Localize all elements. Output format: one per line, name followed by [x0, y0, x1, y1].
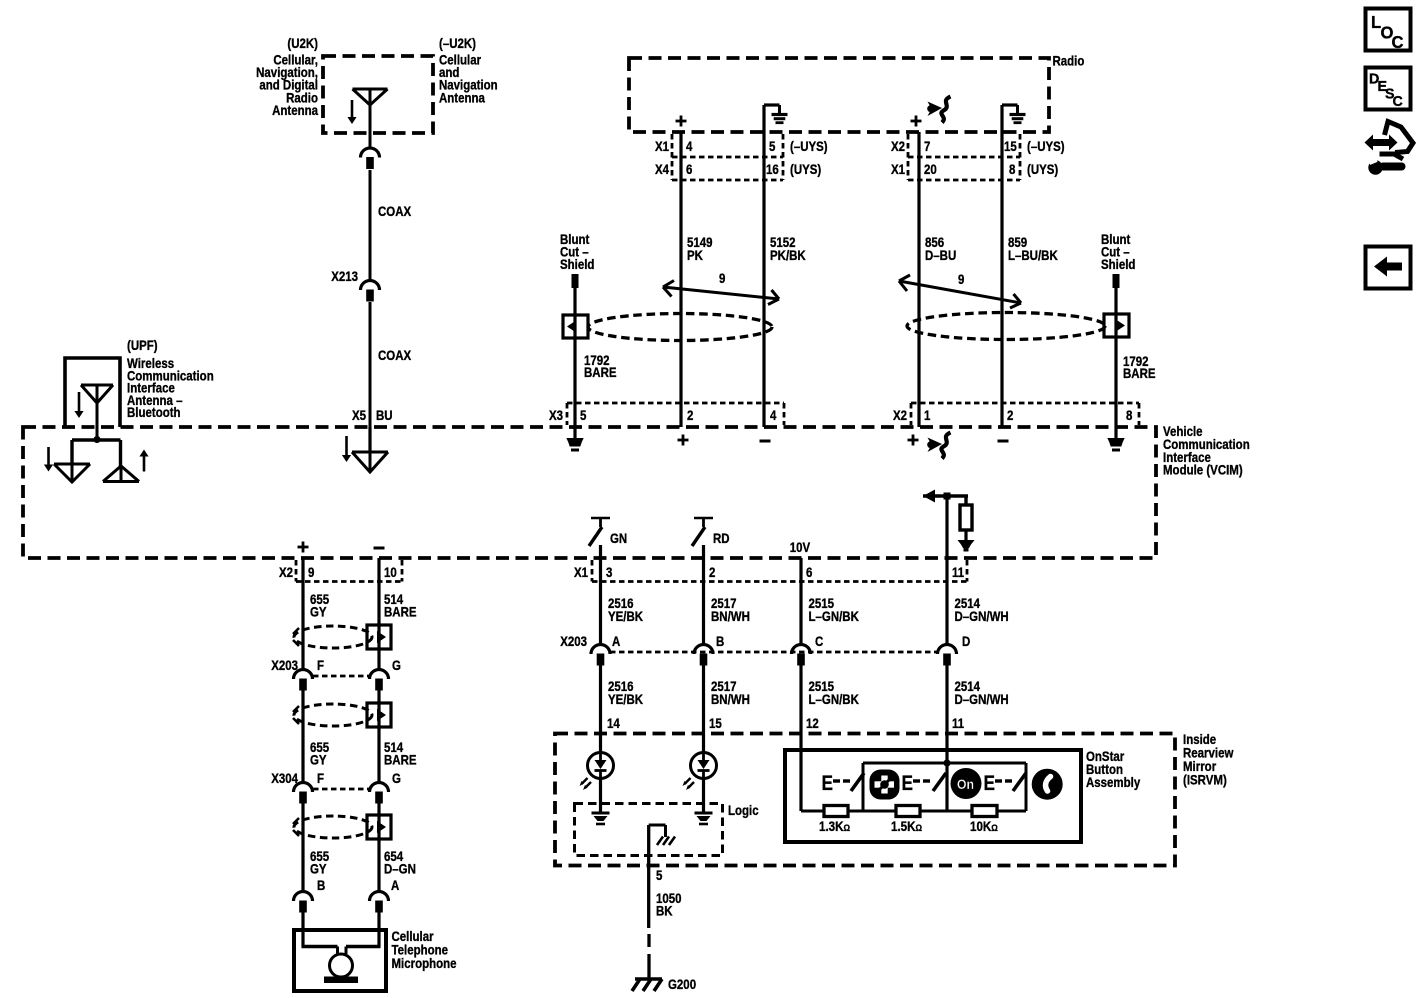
label 655 GY (section 3): [310, 848, 329, 877]
VCIM bottom pin row X1 (3,2,6,11): [574, 560, 967, 582]
svg-text:E: E: [984, 773, 996, 796]
VCIM internal signal arrow and pull-up resistor: [923, 490, 975, 559]
svg-text:Shield: Shield: [560, 256, 594, 272]
label 2517 BN/WH (lower): [711, 678, 750, 707]
svg-text:On: On: [957, 777, 974, 793]
VCIM internal shield ground (right): [1107, 427, 1124, 452]
svg-text:4: 4: [770, 407, 777, 423]
wire 655 GY (VCIM 9 to X203 F): [301, 558, 304, 670]
wire 859 L-BU/BK (radio 15 to VCIM X2-2): [1000, 105, 1003, 427]
svg-text:L–GN/BK: L–GN/BK: [809, 691, 860, 707]
svg-text:B: B: [716, 633, 724, 649]
button common bus bracket: [863, 763, 1026, 811]
bluetooth antenna bracket: [65, 358, 120, 427]
wire 856 D-BU (radio X2-7 to VCIM X2-1): [917, 132, 920, 427]
resistor 1.3K: [824, 806, 848, 817]
label 5152 PK/BK: [770, 234, 806, 263]
label 859 L-BU/BK: [1008, 234, 1058, 263]
signal arrow down (antenna): [347, 100, 356, 124]
svg-text:X304: X304: [271, 770, 299, 786]
svg-text:Shield: Shield: [1101, 256, 1135, 272]
svg-text:G: G: [392, 657, 401, 673]
svg-text:Logic: Logic: [728, 802, 759, 818]
VCIM internal cellular antenna symbol: [352, 427, 388, 472]
label Inside Rearview Mirror (ISRVM): [1183, 731, 1233, 788]
svg-text:4: 4: [686, 138, 693, 154]
wire 2514 D-GN/WH (X203 D to ISRVM 11): [945, 665, 948, 734]
svg-text:GY: GY: [310, 860, 327, 876]
svg-text:2: 2: [687, 407, 693, 423]
svg-text:PK: PK: [687, 247, 704, 263]
svg-text:BARE: BARE: [1123, 365, 1156, 381]
arrow down (bluetooth tx): [44, 447, 53, 472]
svg-text:11: 11: [952, 564, 964, 580]
svg-text:G200: G200: [668, 976, 696, 992]
svg-text:12: 12: [806, 715, 819, 731]
shield ellipse (right pair): [907, 313, 1105, 340]
wire 514 BARE (X203 to X304): [377, 690, 380, 784]
svg-text:9: 9: [719, 270, 725, 286]
label Logic: [728, 802, 759, 818]
svg-text:BN/WH: BN/WH: [711, 608, 750, 624]
label Cellular Telephone Microphone: [392, 928, 457, 971]
polarity marks microphone feed: [298, 542, 385, 553]
svg-text:GY: GY: [310, 751, 327, 767]
svg-text:(–U2K): (–U2K): [439, 35, 476, 51]
wire 2517 BN/WH (VCIM 2 to X203 B): [702, 558, 705, 645]
Inside Rearview Mirror (ISRVM) dashed box: [555, 734, 1175, 866]
svg-text:BK: BK: [656, 902, 673, 918]
svg-text:YE/BK: YE/BK: [608, 691, 644, 707]
blunt cut shield label (left): [560, 231, 594, 272]
shield section 2 (microphone pair): [293, 703, 391, 727]
resistor 1.5K: [896, 806, 920, 817]
svg-text:8: 8: [1126, 407, 1132, 423]
svg-text:GN: GN: [610, 530, 627, 546]
label 856 D-BU: [925, 234, 956, 263]
svg-text:14: 14: [607, 715, 621, 731]
svg-text:C: C: [1392, 33, 1404, 52]
pin X5 BU at VCIM: [352, 407, 393, 423]
svg-text:X1: X1: [891, 161, 905, 177]
label 2517 BN/WH (upper): [711, 595, 750, 624]
label 2514 D-GN/WH (lower): [955, 678, 1009, 707]
svg-text:F: F: [317, 657, 324, 673]
svg-text:5: 5: [656, 867, 662, 883]
svg-text:X5: X5: [352, 407, 366, 423]
microphone element symbol: [302, 930, 381, 983]
svg-text:D: D: [962, 633, 970, 649]
audio noise symbol (VCIM input): [927, 433, 950, 459]
svg-text:1: 1: [924, 407, 930, 423]
svg-text:COAX: COAX: [378, 203, 412, 219]
svg-text:A: A: [612, 633, 620, 649]
back arrow button icon: [1366, 247, 1411, 289]
wire 5152 PK/BK (radio 5 to VCIM 4): [762, 105, 765, 427]
Radio dashed box: [629, 58, 1049, 132]
svg-text:3: 3: [606, 564, 612, 580]
DESC button icon: [1366, 68, 1411, 111]
svg-text:16: 16: [766, 161, 779, 177]
svg-text:10: 10: [384, 564, 397, 580]
twisted pair marker 9 (right pair): [899, 271, 1021, 308]
wire from pin 12 into button assembly: [799, 734, 802, 812]
svg-text:C: C: [815, 633, 823, 649]
ISRVM pin numbers 14 15 12 11: [607, 715, 964, 731]
svg-text:X2: X2: [893, 407, 907, 423]
label 10K ohm: [970, 819, 998, 834]
connector microphone pins B A: [294, 877, 400, 913]
label 655 GY (section 1): [310, 591, 329, 620]
audio noise symbol (radio): [927, 97, 950, 123]
twisted pair marker 9 (left pair): [663, 270, 779, 305]
label 1792 BARE (right): [1123, 353, 1156, 381]
wire 655 GY (X203 to X304): [301, 690, 304, 784]
label 655 GY (section 2): [310, 739, 329, 768]
label 2516 YE/BK (lower): [608, 678, 644, 707]
svg-text:Antenna: Antenna: [272, 102, 319, 118]
svg-text:X213: X213: [331, 268, 358, 284]
svg-text:BN/WH: BN/WH: [711, 691, 750, 707]
label 1792 BARE (left): [584, 352, 617, 380]
Cellular Telephone Microphone box: [294, 930, 386, 991]
antenna symbol T1: [353, 89, 388, 133]
svg-text:11: 11: [952, 715, 964, 731]
shield section 1 (microphone pair): [293, 625, 391, 649]
plus polarity (radio left): [676, 116, 687, 127]
svg-text:(UYS): (UYS): [790, 161, 821, 177]
blunt cut stub (right): [1113, 274, 1120, 288]
VCIM internal switch to RD indicator: [692, 518, 730, 558]
shield drain wire 1792 BARE (left): [573, 288, 576, 427]
Vehicle Communication Interface Module (VCIM) dashed box: [23, 427, 1156, 558]
label OnStar Button Assembly: [1086, 748, 1141, 790]
svg-text:Antenna: Antenna: [439, 89, 486, 105]
switch button 3 (phone): [984, 773, 1027, 796]
label 1.3K ohm: [819, 819, 850, 834]
VCIM top pin row X3 (5,2,4): [549, 403, 784, 425]
label Vehicle Communication Interface Module (VCIM): [1163, 423, 1250, 478]
svg-text:Radio: Radio: [1053, 52, 1085, 68]
svg-text:L–GN/BK: L–GN/BK: [809, 608, 860, 624]
OnStar Button Assembly box: [785, 750, 1081, 842]
inline connector (antenna lead): [361, 148, 380, 169]
microphone lead wires: [303, 912, 379, 930]
svg-text:COAX: COAX: [378, 347, 412, 363]
coax lead-in wire: [369, 133, 372, 148]
svg-text:BARE: BARE: [584, 364, 617, 380]
svg-text:GY: GY: [310, 603, 327, 619]
switch button 1 (hands-free): [822, 773, 865, 796]
svg-text:BARE: BARE: [384, 603, 417, 619]
svg-text:D–GN: D–GN: [384, 860, 416, 876]
svg-text:5: 5: [769, 138, 775, 154]
pin 5 ISRVM: [656, 867, 662, 883]
svg-text:BARE: BARE: [384, 751, 417, 767]
svg-text:Bluetooth: Bluetooth: [127, 404, 181, 420]
wire 2517 BN/WH (X203 B to ISRVM 15): [702, 665, 705, 734]
label COAX (upper): [378, 203, 412, 219]
label 5149 PK: [687, 234, 713, 263]
bluetooth antenna arrow down: [74, 392, 83, 418]
svg-text:9: 9: [308, 564, 314, 580]
wire from pin 11 into button assembly: [945, 734, 948, 812]
junction node on signal wire: [943, 759, 950, 766]
arrow up (bluetooth rx): [139, 450, 148, 472]
VCIM top pin row X2 (1,2,8): [893, 403, 1139, 425]
shield ellipse (left pair): [588, 314, 772, 341]
svg-text:1.5KΩ: 1.5KΩ: [891, 819, 922, 834]
svg-text:X4: X4: [655, 161, 670, 177]
wire 654 D-GN (X304 to microphone A): [377, 803, 380, 892]
svg-text:PK/BK: PK/BK: [770, 247, 806, 263]
svg-text:6: 6: [686, 161, 692, 177]
VCIM internal antenna down (bluetooth tx): [54, 440, 90, 482]
svg-text:C: C: [1393, 94, 1404, 110]
wire 1050 BK dashed continuation: [647, 934, 650, 967]
blunt cut shield label (right): [1101, 231, 1135, 272]
resistor 10K: [972, 806, 997, 817]
coax wire segment COAX: [369, 170, 372, 281]
svg-text:10KΩ: 10KΩ: [970, 819, 998, 834]
label 1.5K ohm: [891, 819, 922, 834]
svg-text:YE/BK: YE/BK: [608, 608, 644, 624]
connector X213: [331, 268, 379, 302]
label (UPF) Wireless Communication Interface Antenna - Bluetooth: [127, 337, 214, 421]
svg-text:(UPF): (UPF): [127, 337, 158, 353]
svg-text:D–GN/WH: D–GN/WH: [955, 608, 1009, 624]
blunt cut stub (left): [572, 274, 579, 288]
label 2515 L-GN/BK (upper): [809, 595, 860, 624]
svg-text:15: 15: [1004, 138, 1017, 154]
svg-text:2: 2: [709, 564, 715, 580]
svg-text:(–UYS): (–UYS): [790, 138, 828, 154]
label COAX (lower): [378, 347, 412, 363]
VCIM bottom pin row X2 (9,10) microphone: [279, 560, 402, 582]
label 2516 YE/BK (upper): [608, 595, 644, 624]
svg-text:D–GN/WH: D–GN/WH: [955, 691, 1009, 707]
ground G200: [632, 967, 696, 992]
label (U2K) Cellular Navigation and Digital Radio Antenna: [256, 35, 319, 118]
radio connector pin box right (X2-7/15, X1-20/8): [891, 134, 1065, 180]
svg-text:1.3KΩ: 1.3KΩ: [819, 819, 850, 834]
svg-text:X203: X203: [560, 633, 587, 649]
VCIM internal antenna up (bluetooth rx): [103, 440, 139, 482]
resistor ladder bus: [801, 810, 1026, 813]
svg-text:RD: RD: [713, 530, 730, 546]
wire 5149 PK (radio X1-4 to VCIM 2): [679, 132, 682, 427]
wire 2515 L-GN/BK (X203 C to ISRVM 12): [799, 665, 802, 734]
VCIM internal antenna arrow: [342, 436, 351, 462]
svg-text:X3: X3: [549, 407, 563, 423]
svg-text:(UYS): (UYS): [1027, 161, 1058, 177]
shield termination box (left): [563, 315, 588, 338]
switch button 2 (OnStar): [902, 773, 947, 796]
wire 2516 YE/BK (X203 A to ISRVM 14): [599, 665, 602, 734]
svg-text:Microphone: Microphone: [392, 955, 457, 971]
svg-text:X2: X2: [891, 138, 905, 154]
shield section 3 (microphone pair): [293, 815, 391, 839]
connector row X203 (A,B,C,D): [560, 633, 970, 666]
svg-text:B: B: [317, 877, 325, 893]
bluetooth antenna symbol: [81, 385, 113, 440]
label 654 D-GN (section 3): [384, 848, 416, 877]
svg-text:A: A: [391, 877, 399, 893]
wire 655 GY (X304 to microphone B): [301, 803, 304, 892]
LOC button icon: [1366, 9, 1411, 53]
connector X203 F G (microphone): [271, 657, 401, 691]
label 1050 BK: [656, 890, 682, 919]
svg-text:(ISRVM): (ISRVM): [1183, 771, 1227, 787]
svg-text:6: 6: [806, 564, 812, 580]
label 2515 L-GN/BK (lower): [809, 678, 860, 707]
label 514 BARE (section 2): [384, 739, 417, 768]
connector X304 F G (microphone): [271, 770, 401, 804]
plus polarity (radio right): [911, 116, 922, 127]
label Radio: [1053, 52, 1085, 68]
radio internal ground symbol (right): [1002, 105, 1026, 123]
svg-text:L–BU/BK: L–BU/BK: [1008, 247, 1058, 263]
coax wire segment COAX lower: [369, 302, 372, 427]
svg-text:Assembly: Assembly: [1086, 774, 1141, 790]
LED indicator red (ISRVM): [683, 734, 717, 825]
svg-text:8: 8: [1009, 161, 1015, 177]
shield drain wire 1792 BARE (right): [1114, 288, 1117, 427]
svg-text:D–BU: D–BU: [925, 247, 956, 263]
svg-text:7: 7: [924, 138, 930, 154]
svg-text:BU: BU: [376, 407, 393, 423]
svg-text:X203: X203: [271, 657, 298, 673]
svg-text:E: E: [822, 773, 834, 796]
logic internal ground connection: [649, 825, 675, 928]
icon phone button: [1032, 769, 1063, 800]
VCIM bluetooth junction node: [72, 436, 121, 443]
label 514 BARE (section 1): [384, 591, 417, 620]
label (-U2K) Cellular and Navigation Antenna: [439, 35, 498, 106]
svg-text:Module (VCIM): Module (VCIM): [1163, 462, 1243, 478]
wire 2514 D-GN/WH (VCIM 11 to X203 D): [945, 558, 948, 645]
VCIM internal shield ground (left): [566, 427, 583, 452]
hotspot navigation icon: [1365, 122, 1414, 175]
wire 514 BARE (VCIM 10 to X203 G): [377, 558, 380, 670]
svg-text:2: 2: [1007, 407, 1013, 423]
label 10V supply: [790, 539, 811, 555]
svg-text:5: 5: [580, 407, 586, 423]
icon fan button: [870, 770, 900, 800]
icon OnStar button: [951, 768, 982, 799]
svg-text:10V: 10V: [790, 539, 811, 555]
svg-text:15: 15: [709, 715, 722, 731]
radio internal ground symbol (left): [764, 105, 788, 123]
radio connector pin box left (X1-4/5, X4-6/16): [655, 134, 828, 180]
svg-text:F: F: [317, 770, 324, 786]
svg-text:X1: X1: [655, 138, 669, 154]
LED indicator green (ISRVM): [580, 734, 614, 825]
label 2514 D-GN/WH (upper): [955, 595, 1009, 624]
shield termination box (right): [1104, 314, 1129, 337]
svg-text:X1: X1: [574, 564, 588, 580]
polarity marks at VCIM audio inputs: [678, 435, 1009, 446]
svg-text:20: 20: [924, 161, 937, 177]
VCIM internal switch to GN indicator: [589, 518, 627, 558]
antenna assembly box (cellular/navigation antenna): [323, 56, 433, 133]
svg-text:X2: X2: [279, 564, 293, 580]
svg-text:E: E: [902, 773, 914, 796]
wire 2516 YE/BK (VCIM 3 to X203 A): [599, 558, 602, 645]
svg-text:9: 9: [958, 271, 964, 287]
wire 2515 L-GN/BK (VCIM 6 to X203 C): [799, 558, 802, 645]
svg-text:(–UYS): (–UYS): [1027, 138, 1065, 154]
svg-text:(U2K): (U2K): [287, 35, 318, 51]
svg-text:G: G: [392, 770, 401, 786]
Logic dashed box: [575, 804, 723, 856]
